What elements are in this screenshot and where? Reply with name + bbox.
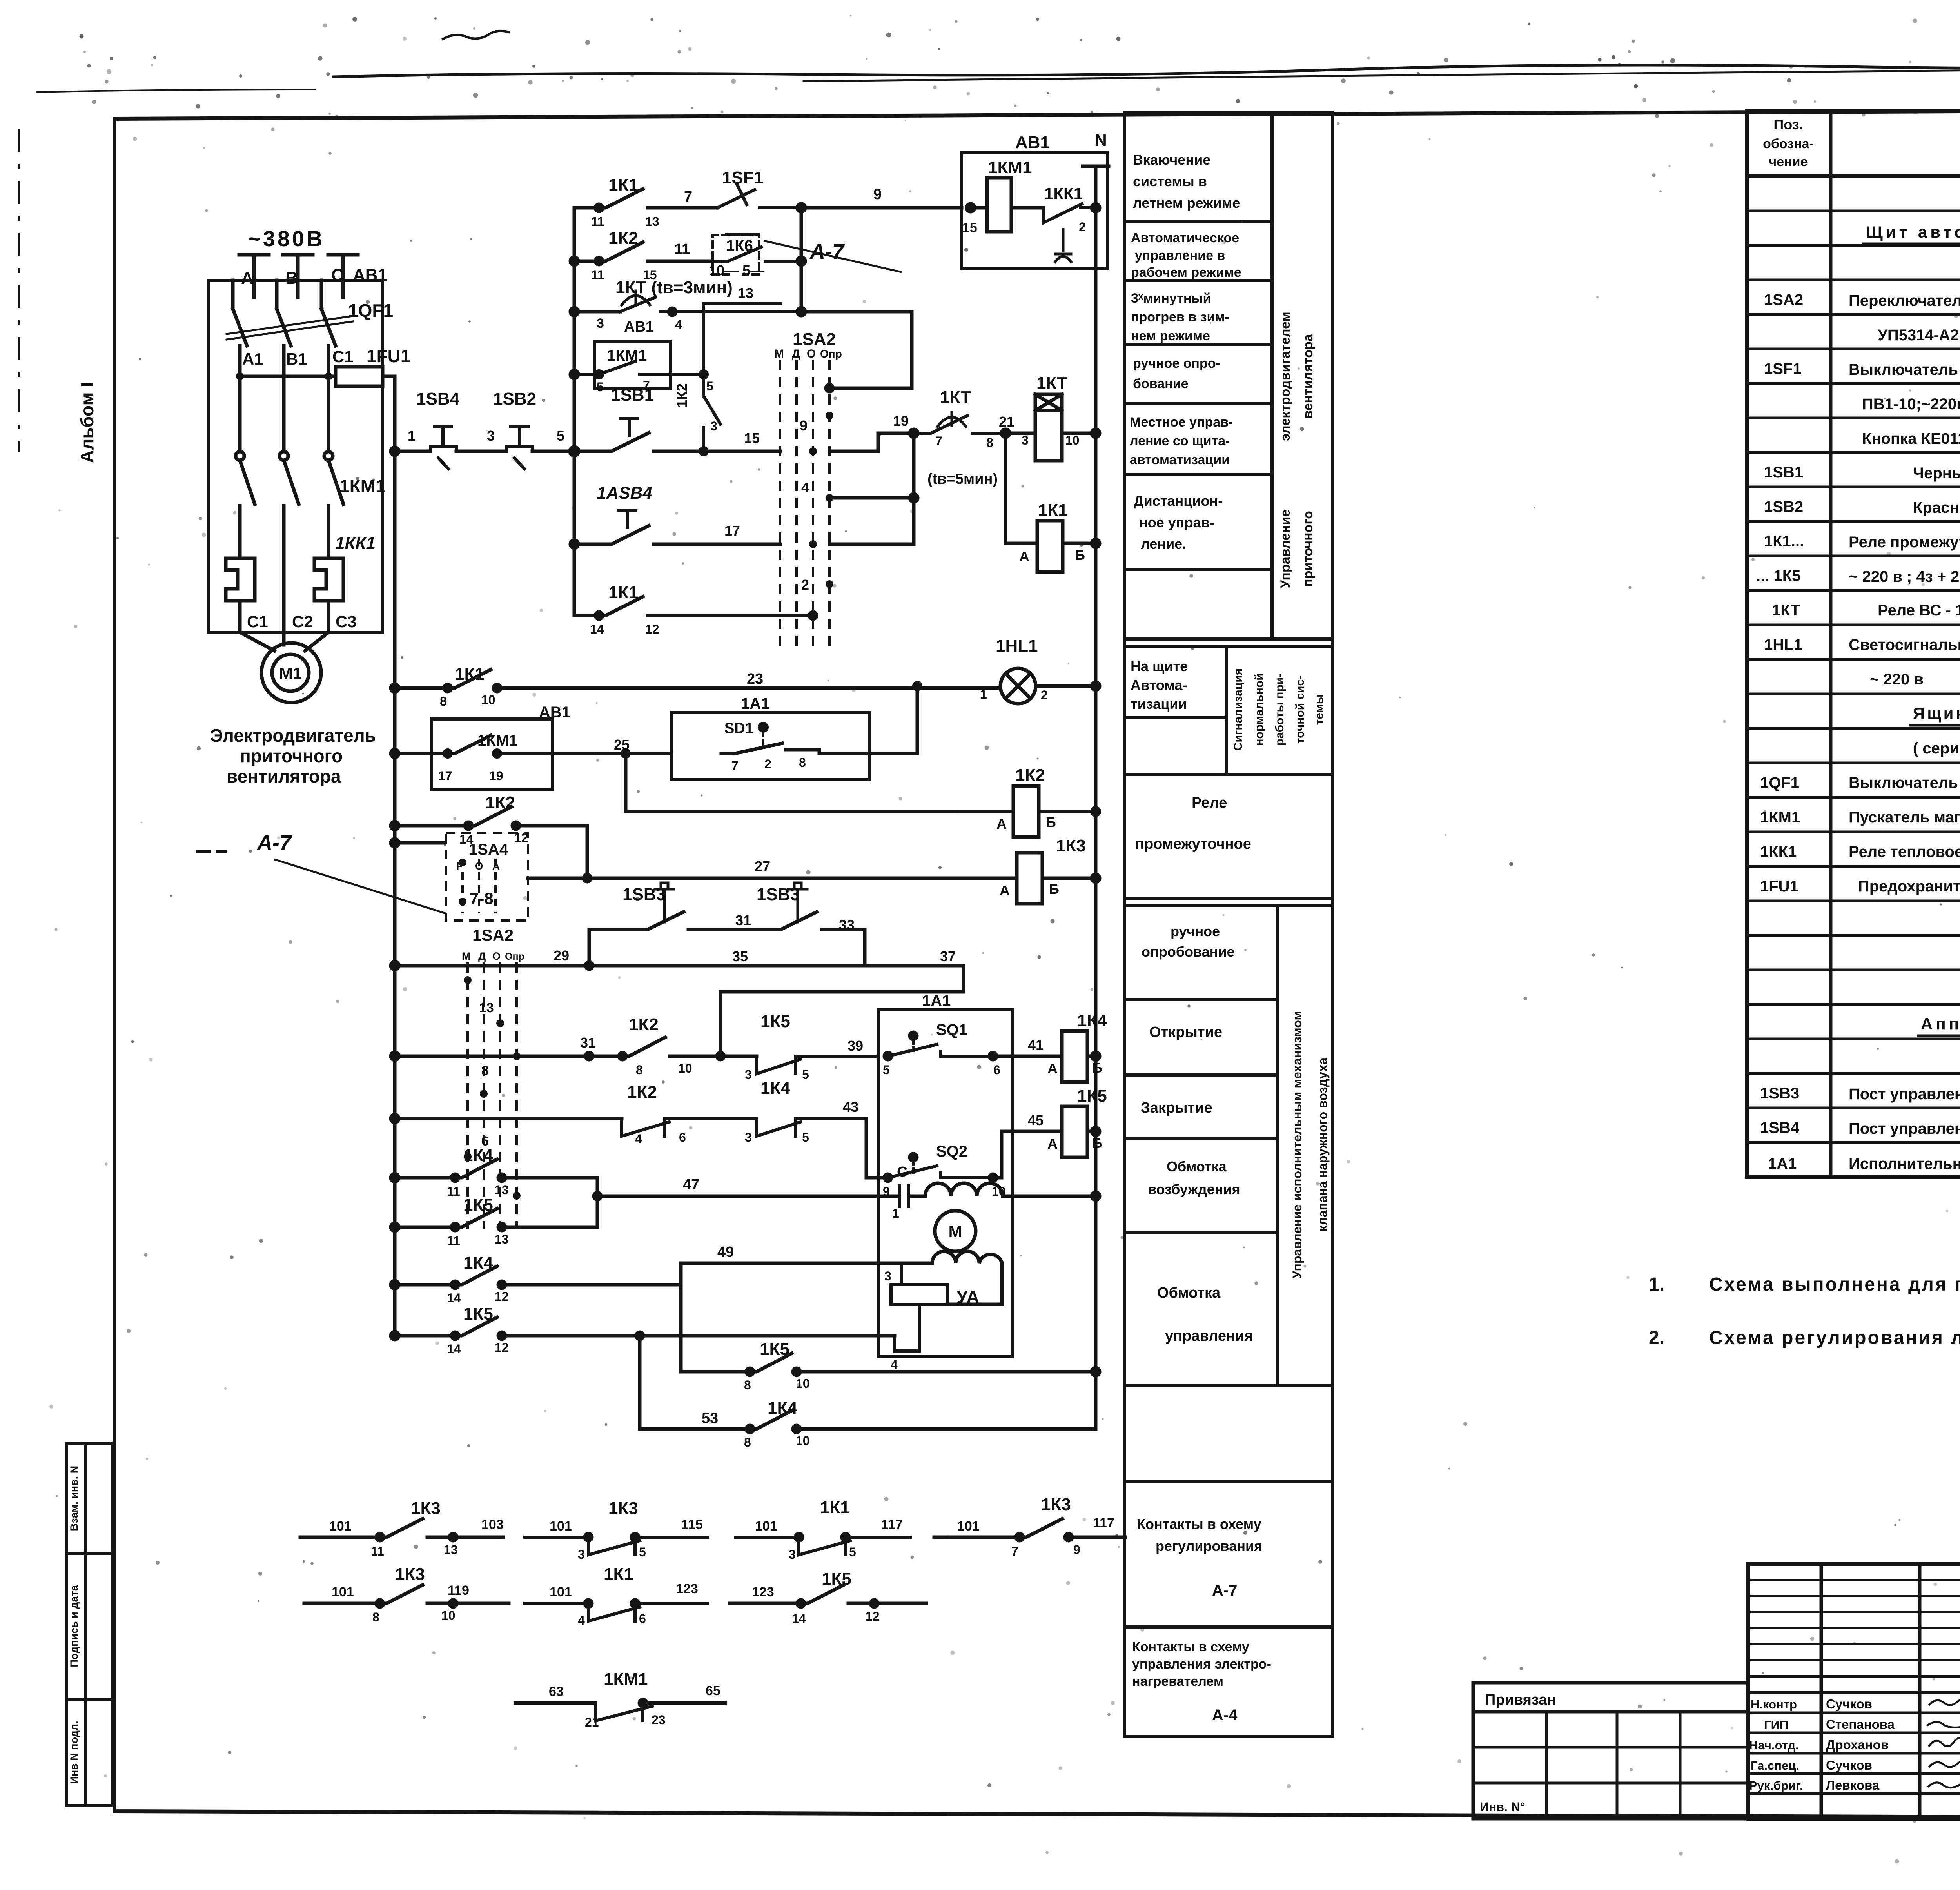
svg-text:1SВ1: 1SВ1 — [1764, 464, 1803, 481]
wire into coil 1КМ1 — [971, 206, 987, 210]
svg-text:13: 13 — [645, 214, 659, 229]
group D box lines — [1124, 1480, 1333, 1483]
svg-text:Реле промежуточное РПУ2-36420: Реле промежуточное РПУ2-36420У3Б — [1849, 534, 1960, 551]
svg-text:15: 15 — [962, 220, 977, 235]
svg-text:1НL1: 1НL1 — [1764, 636, 1802, 654]
svg-text:13: 13 — [495, 1232, 509, 1246]
svg-text:1К4: 1К4 — [463, 1253, 493, 1273]
row2 group3: contact 1К5 123 — [730, 1585, 926, 1607]
row b wire — [574, 260, 599, 263]
1SA4 dashed box — [446, 833, 528, 920]
riser 33 down — [863, 930, 867, 966]
contact 1К4 NC row 43 — [757, 1118, 866, 1136]
svg-text:А: А — [1019, 548, 1029, 565]
svg-text:1КМ1: 1КМ1 — [339, 476, 386, 496]
svg-text:5: 5 — [706, 379, 713, 393]
phase A supply stub — [239, 255, 269, 297]
svg-text:1SА2: 1SА2 — [1764, 291, 1803, 309]
svg-text:1SВ1: 1SВ1 — [611, 385, 654, 405]
breaker 1QF1 pole C — [321, 280, 336, 369]
svg-text:8: 8 — [636, 1063, 643, 1077]
coil 1К2 — [1013, 786, 1039, 837]
svg-text:45: 45 — [1028, 1112, 1044, 1128]
svg-text:1SА4: 1SА4 — [469, 841, 508, 858]
svg-text:9: 9 — [800, 418, 808, 434]
bottom-left stamp column boxes — [67, 1443, 113, 1805]
svg-text:1НL1: 1НL1 — [996, 636, 1038, 655]
contactor 1KM1 pole B terminal circle — [279, 452, 288, 460]
strip left border — [1123, 113, 1126, 1737]
привязан block — [1473, 1683, 1748, 1819]
row c extension to 1SA2 — [801, 312, 912, 388]
svg-text:10— 5—: 10— 5— — [709, 262, 764, 278]
svg-text:13: 13 — [495, 1183, 509, 1197]
phase C supply stub — [328, 255, 358, 297]
svg-text:4: 4 — [675, 318, 682, 332]
mid row 35-37 — [589, 966, 964, 1056]
1SA4 dots — [459, 859, 466, 906]
svg-text:3: 3 — [789, 1547, 796, 1561]
group B box lines — [1124, 645, 1333, 648]
svg-text:SQ1: SQ1 — [936, 1021, 967, 1039]
svg-text:Рук.бриг.: Рук.бриг. — [1749, 1779, 1803, 1792]
svg-text:1К4: 1К4 — [463, 1146, 493, 1165]
svg-text:1SF1: 1SF1 — [1764, 360, 1802, 378]
svg-text:1: 1 — [980, 687, 987, 701]
contact 1К6 (sheet А-7) with dashed brackets — [713, 235, 728, 274]
svg-text:приточного: приточного — [1301, 511, 1316, 587]
svg-text:3: 3 — [745, 1068, 752, 1082]
svg-text:Пускатель магнитный: Пускатель магнитный — [1849, 809, 1960, 826]
svg-text:1А1: 1А1 — [1768, 1155, 1797, 1173]
coil УА — [891, 1285, 947, 1304]
svg-text:3: 3 — [745, 1130, 752, 1144]
svg-text:Схема выполнена для: Схема выполнена для приточной системы П1 — [1709, 1274, 1960, 1295]
svg-text:1К1: 1К1 — [604, 1565, 633, 1584]
node 19 — [910, 429, 918, 437]
svg-text:1QF1: 1QF1 — [1760, 774, 1799, 792]
svg-text:Га.спец.: Га.спец. — [1751, 1759, 1799, 1772]
svg-text:5: 5 — [802, 1130, 809, 1144]
motor leads converging — [240, 632, 328, 651]
svg-text:1КМ1: 1КМ1 — [477, 732, 517, 749]
svg-text:12: 12 — [645, 622, 659, 636]
svg-text:1К1: 1К1 — [820, 1498, 850, 1517]
svg-text:35: 35 — [732, 948, 748, 964]
svg-text:Опр: Опр — [820, 348, 842, 360]
svg-text:автоматизации: автоматизации — [1130, 452, 1230, 467]
svg-text:49: 49 — [717, 1244, 734, 1260]
wire to coil 1К1 — [1005, 542, 1037, 545]
svg-text:Выключатель автоматический: Выключатель автоматический — [1849, 774, 1960, 792]
svg-text:1SВ2: 1SВ2 — [1764, 498, 1803, 516]
row c wire — [574, 310, 620, 314]
svg-text:1КК1: 1КК1 — [1760, 843, 1797, 861]
svg-text:3ˣминутный: 3ˣминутный — [1131, 291, 1211, 306]
svg-text:А-4: А-4 — [1212, 1707, 1238, 1724]
svg-text:Н.контр: Н.контр — [1751, 1698, 1797, 1711]
svg-text:М: М — [774, 347, 784, 360]
svg-text:бование: бование — [1133, 376, 1188, 391]
svg-text:1SВ4: 1SВ4 — [1760, 1119, 1800, 1137]
node at bus B2 row b — [797, 257, 805, 265]
svg-text:Поз.: Поз. — [1773, 116, 1803, 133]
svg-text:1АSВ4: 1АSВ4 — [597, 483, 652, 503]
svg-text:А-7: А-7 — [256, 831, 292, 855]
wire 13 row — [704, 302, 780, 305]
coil 1К1 to N rail — [1063, 542, 1096, 545]
svg-text:23: 23 — [652, 1713, 666, 1727]
svg-text:10: 10 — [678, 1061, 692, 1075]
svg-text:8: 8 — [799, 755, 806, 770]
svg-text:Сучков: Сучков — [1826, 1697, 1872, 1711]
svg-text:1К3: 1К3 — [1041, 1495, 1071, 1514]
svg-text:101: 101 — [550, 1585, 572, 1600]
1ASB4 row wire — [574, 526, 780, 544]
staircase riser — [588, 930, 591, 966]
coil 1К5 to N rail — [1087, 1130, 1096, 1133]
node at N rail — [1092, 204, 1100, 212]
merge vertical and wire 47 — [597, 1178, 899, 1227]
svg-text:1К2: 1К2 — [627, 1082, 657, 1102]
drop to SQ2 — [866, 1118, 888, 1178]
svg-text:3: 3 — [487, 428, 495, 444]
svg-text:1К4: 1К4 — [760, 1078, 790, 1098]
paper top edge squiggle line — [333, 57, 1960, 77]
signature rows — [1748, 1712, 1960, 1714]
svg-text:13: 13 — [738, 285, 753, 301]
svg-text:1КМ1: 1КМ1 — [604, 1670, 648, 1689]
wire segment 1SB2 to node 5 — [532, 450, 574, 453]
svg-text:1КМ1: 1КМ1 — [607, 347, 647, 364]
svg-text:Аппаратура по месту: Аппаратура по месту — [1921, 1015, 1960, 1033]
svg-text:4: 4 — [891, 1358, 898, 1372]
jog up to coil 1К5 — [993, 1131, 1062, 1178]
paper top-left short edge mark — [37, 89, 316, 92]
1SA2 lower contact dots — [464, 976, 521, 1200]
svg-text:5: 5 — [802, 1068, 809, 1082]
svg-text:8: 8 — [744, 1378, 751, 1392]
svg-text:1КМ1: 1КМ1 — [988, 158, 1032, 177]
actuator box 1А1 with SD1 — [671, 712, 870, 780]
svg-text:9: 9 — [873, 186, 882, 203]
contactor 1KM1 blade A — [240, 460, 255, 554]
fuse 1FU1 body — [336, 367, 383, 386]
svg-text:Инв N подл.: Инв N подл. — [68, 1721, 80, 1784]
svg-text:1: 1 — [892, 1206, 899, 1220]
svg-text:Красный „Стоп“: Красный „Стоп“ — [1913, 499, 1960, 516]
contactor 1KM1 pole A terminal circle — [236, 452, 244, 460]
time contact 1КТ row c — [620, 297, 801, 312]
svg-text:29: 29 — [554, 948, 569, 964]
svg-text:1К2: 1К2 — [629, 1015, 659, 1034]
contact 1К4 8-10 row 53 — [640, 1372, 1096, 1429]
svg-text:Закрытие: Закрытие — [1141, 1100, 1212, 1116]
svg-text:6: 6 — [679, 1130, 686, 1144]
svg-text:М1: М1 — [279, 664, 302, 683]
svg-text:1QF1: 1QF1 — [348, 300, 393, 321]
svg-text:О: О — [475, 860, 483, 872]
svg-text:1SА2: 1SА2 — [793, 330, 836, 349]
table outer border — [1747, 111, 1960, 1177]
paper top edge second squiggle — [804, 66, 1960, 81]
row a wire start — [574, 206, 599, 210]
node 5 junction dot — [570, 447, 579, 456]
svg-text:5: 5 — [597, 380, 604, 394]
svg-text:9: 9 — [1073, 1543, 1080, 1557]
group A box lines — [1124, 111, 1333, 114]
svg-text:1К2: 1К2 — [608, 229, 638, 248]
coil 1К4 to N rail — [1087, 1055, 1096, 1058]
svg-text:12: 12 — [866, 1609, 880, 1623]
wire coil 1КТ to N rail — [1062, 432, 1096, 435]
svg-text:4: 4 — [635, 1132, 642, 1146]
svg-text:19: 19 — [489, 769, 503, 783]
svg-text:119: 119 — [448, 1583, 469, 1598]
svg-text:~ 220 в: ~ 220 в — [1870, 671, 1924, 688]
svg-text:Контакты в охему: Контакты в охему — [1137, 1516, 1261, 1532]
svg-text:Д: Д — [792, 347, 800, 360]
svg-text:11: 11 — [674, 241, 690, 258]
node mid row c — [669, 308, 676, 315]
vertical link x1795 with NC contact 1К2 — [704, 304, 720, 451]
svg-text:7: 7 — [731, 759, 739, 773]
button actuator 1 — [655, 883, 674, 922]
svg-text:103: 103 — [481, 1517, 504, 1532]
svg-text:17: 17 — [438, 769, 452, 783]
SD1 contact — [721, 743, 917, 753]
svg-text:Управление: Управление — [1278, 510, 1293, 588]
svg-text:Степанова: Степанова — [1826, 1717, 1895, 1732]
svg-text:А: А — [1047, 1060, 1058, 1077]
rail node at 1ASB4 row — [570, 540, 578, 548]
1ASB4 button actuator — [619, 511, 636, 527]
thermal NC contact 1КК1 — [1044, 204, 1096, 223]
svg-text:А: А — [1000, 882, 1010, 899]
svg-text:2: 2 — [1041, 688, 1048, 702]
svg-text:11: 11 — [447, 1234, 460, 1248]
svg-text:Опр: Опр — [505, 951, 524, 962]
svg-text:Нач.отд.: Нач.отд. — [1749, 1738, 1799, 1752]
svg-text:33: 33 — [839, 917, 855, 933]
svg-text:АВ1: АВ1 — [1015, 133, 1050, 152]
node at bus B2 row c — [797, 308, 805, 316]
svg-text:11: 11 — [371, 1544, 384, 1558]
svg-text:Местное управ-: Местное управ- — [1130, 415, 1233, 430]
svg-text:37: 37 — [940, 948, 956, 964]
svg-text:Светосигнальное устройство А: Светосигнальное устройство АС1201ЗУ2 — [1849, 636, 1960, 654]
svg-text:Сучков: Сучков — [1826, 1758, 1872, 1772]
phase C vertical to contactor — [327, 369, 330, 451]
svg-text:В: В — [285, 269, 298, 288]
svg-text:63: 63 — [549, 1684, 564, 1699]
svg-text:... 1К5: ... 1К5 — [1756, 567, 1800, 585]
svg-text:12: 12 — [495, 1340, 509, 1354]
svg-text:1К1: 1К1 — [1038, 501, 1068, 520]
wire 1SA2 to vertical y1388 — [829, 543, 914, 546]
lower left rail — [393, 451, 397, 1336]
svg-text:117: 117 — [881, 1517, 903, 1532]
svg-text:1А1: 1А1 — [922, 992, 951, 1009]
table column line Поз — [1829, 111, 1833, 1177]
button actuator 2 — [788, 883, 807, 922]
group C box lines — [1124, 904, 1333, 907]
dash marks left of А-7 — [196, 850, 227, 853]
actuator 1А1 lower box — [878, 1010, 1013, 1357]
svg-text:1К1: 1К1 — [608, 175, 638, 194]
svg-text:1К5: 1К5 — [760, 1340, 789, 1359]
svg-text:3: 3 — [710, 419, 717, 433]
svg-text:Электродвигатель: Электродвигатель — [210, 725, 376, 746]
svg-text:Черный „Пуск“: Черный „Пуск“ — [1913, 465, 1960, 482]
svg-text:3: 3 — [597, 316, 604, 331]
svg-text:2: 2 — [801, 577, 809, 593]
rail node at aux row — [570, 370, 578, 378]
thermal element 1КК1 phase C — [314, 554, 343, 632]
contact 1К2 14-12 — [395, 807, 587, 826]
svg-text:Дистанцион-: Дистанцион- — [1134, 493, 1223, 509]
svg-text:19: 19 — [893, 413, 909, 429]
svg-text:31: 31 — [580, 1035, 596, 1051]
svg-text:Управление исполнительным мех: Управление исполнительным механизмом — [1290, 1011, 1304, 1278]
upper row 31-33 with buttons 1SB3 — [589, 912, 865, 930]
svg-text:Сигнализация: Сигнализация — [1232, 668, 1245, 751]
riser to row 53 — [638, 1336, 642, 1429]
1SA2 lower dashed columns — [466, 962, 469, 1229]
signature scribble 2 — [1927, 1722, 1960, 1727]
N rail vertical — [1094, 166, 1098, 1429]
contact 1К4 14-12 — [395, 1266, 681, 1285]
coil 1К5 — [1062, 1106, 1087, 1157]
wire 1SA2 to vertical y1270 — [829, 496, 914, 500]
svg-text:вентилятора: вентилятора — [1301, 334, 1316, 419]
svg-text:УП5314-А254 ~220 в: УП5314-А254 ~220 в — [1878, 327, 1960, 344]
svg-text:2: 2 — [1079, 220, 1086, 234]
svg-text:1К4: 1К4 — [768, 1398, 797, 1418]
svg-text:23: 23 — [747, 671, 763, 687]
svg-text:5: 5 — [557, 428, 564, 444]
pushbutton 1SB2 NC — [506, 427, 532, 469]
svg-text:3: 3 — [578, 1547, 585, 1561]
УА top connector — [900, 1263, 903, 1285]
svg-text:приточного: приточного — [240, 746, 343, 766]
coil 1К1 — [1037, 521, 1063, 572]
breaker 1QF1 pole B — [277, 280, 291, 369]
svg-text:1К5: 1К5 — [1077, 1086, 1107, 1106]
wire 9 to АВ1 box — [801, 206, 962, 210]
svg-text:ГИП: ГИП — [1764, 1718, 1788, 1732]
row 27 wire — [528, 877, 1017, 880]
svg-text:(tв=5мин): (tв=5мин) — [927, 471, 998, 487]
rail node at row b — [570, 257, 578, 265]
1SA4 feed wire — [395, 841, 446, 845]
row3: contact 1КМ1 63-65 NC — [515, 1699, 726, 1721]
svg-text:рабочем режиме: рабочем режиме — [1131, 265, 1241, 280]
wire coil to thermal contact — [1011, 206, 1044, 210]
svg-text:клапана наружного воздуха: клапана наружного воздуха — [1316, 1058, 1330, 1232]
contact 1K1 row a — [599, 189, 682, 208]
svg-text:8: 8 — [986, 436, 993, 450]
svg-text:5: 5 — [849, 1545, 856, 1559]
svg-text:1К1: 1К1 — [455, 664, 485, 684]
svg-text:SD1: SD1 — [724, 720, 753, 737]
svg-text:101: 101 — [329, 1519, 352, 1534]
svg-text:14: 14 — [590, 622, 604, 636]
winding arcs top — [909, 1183, 1013, 1196]
1SA4 contact columns — [461, 859, 464, 913]
svg-text:8: 8 — [481, 1063, 489, 1078]
coil 1КМ1 — [987, 178, 1011, 232]
svg-text:1SВ3: 1SВ3 — [1760, 1085, 1799, 1102]
svg-text:SQ2: SQ2 — [936, 1143, 967, 1160]
svg-text:1SВ3: 1SВ3 — [757, 885, 800, 904]
svg-text:101: 101 — [957, 1519, 980, 1534]
svg-text:7: 7 — [1011, 1544, 1018, 1558]
svg-text:1К5: 1К5 — [463, 1195, 493, 1215]
svg-text:11: 11 — [447, 1184, 460, 1198]
svg-text:25: 25 — [614, 737, 630, 753]
row1 group1: contact 1К3 101-103 — [300, 1519, 503, 1541]
rail node at row c — [570, 308, 578, 316]
coil 1К3 — [1017, 853, 1042, 904]
svg-text:12: 12 — [495, 1289, 509, 1304]
control feed wire from fuse — [240, 376, 395, 451]
1КМ1 aux box (АВ1) — [432, 719, 553, 790]
svg-text:Щит автоматизации АD1: Щит автоматизации АD1 — [1866, 223, 1960, 241]
svg-text:Схема регулирования лис: Схема регулирования лист А-7 — [1709, 1327, 1960, 1348]
svg-text:Вкаючение: Вкаючение — [1133, 152, 1210, 168]
rung jog to wire 19 — [829, 433, 914, 451]
svg-text:1SВ3: 1SВ3 — [622, 885, 666, 904]
svg-text:ручное опро-: ручное опро- — [1133, 356, 1220, 371]
svg-text:АВ1: АВ1 — [624, 319, 654, 335]
phase B supply stub — [283, 255, 313, 297]
svg-text:3: 3 — [884, 1269, 891, 1283]
signature scribble 4 — [1929, 1761, 1960, 1767]
svg-text:1К3: 1К3 — [1056, 836, 1086, 855]
svg-text:работы при-: работы при- — [1273, 674, 1286, 746]
leader line to 1SA4 — [274, 859, 446, 913]
thin upper rows — [1748, 1579, 1960, 1581]
riser 49 to row 1К5 8-10 — [679, 1263, 683, 1372]
motor M1 inner circle — [272, 654, 309, 691]
svg-text:115: 115 — [681, 1517, 703, 1532]
row 43 wire from rail — [395, 1117, 622, 1120]
svg-text:управление в: управление в — [1135, 248, 1225, 263]
svg-text:8: 8 — [440, 694, 447, 708]
svg-text:О: О — [492, 950, 501, 962]
row 29 wire — [395, 964, 589, 968]
svg-text:101: 101 — [550, 1519, 572, 1534]
svg-text:Б: Б — [1092, 1060, 1102, 1076]
svg-text:1К3: 1К3 — [608, 1499, 638, 1518]
contact 1К5 NC row 39 — [757, 1056, 878, 1074]
contact 1К4 11-13 — [395, 1159, 597, 1178]
svg-text:А1: А1 — [242, 350, 263, 368]
svg-text:1К3: 1К3 — [395, 1565, 425, 1584]
winding arcs lower — [932, 1251, 1002, 1304]
svg-text:нем режиме: нем режиме — [1131, 329, 1210, 343]
N rail terminal tick — [1083, 165, 1109, 168]
coil 1К4 — [1062, 1031, 1087, 1082]
svg-text:А: А — [1047, 1136, 1058, 1152]
time contact 1КТ (5 мин) — [914, 416, 1005, 433]
svg-text:41: 41 — [1028, 1037, 1044, 1053]
phase B vertical to contactor — [282, 369, 286, 451]
svg-text:14: 14 — [792, 1612, 806, 1626]
contact 1К5 11-13 — [395, 1209, 597, 1227]
strip outer right border — [1331, 113, 1334, 1737]
